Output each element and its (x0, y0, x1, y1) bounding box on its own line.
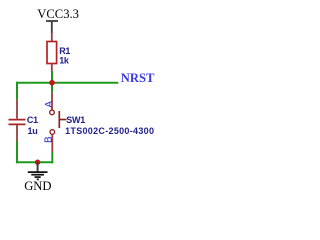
resistor R1 pin 1 (51, 33, 53, 42)
svg-text:NRST: NRST (121, 71, 155, 85)
switch SW1 actuator bar (58, 111, 60, 128)
wire left rail down (16, 82, 18, 100)
switch SW1 pin A (51, 93, 53, 110)
switch SW1 terminal A circle (50, 110, 55, 115)
wire SW1 to bottom (51, 152, 53, 163)
svg-text:R1: R1 (59, 46, 70, 56)
wire bottom horizontal (16, 161, 53, 163)
junction node (49, 80, 55, 86)
svg-text:GND: GND (24, 179, 51, 193)
ground symbol (28, 172, 48, 179)
switch SW1 pin B wire (51, 134, 53, 152)
capacitor C1 plates (9, 120, 26, 125)
ground stem (37, 162, 39, 171)
svg-text:VCC3.3: VCC3.3 (37, 7, 79, 21)
wire from R1 to node (51, 71, 53, 83)
switch SW1 actuator stem (59, 119, 66, 121)
resistor R1 pin 2 (51, 64, 53, 72)
svg-text:1k: 1k (59, 56, 70, 66)
svg-text:C1: C1 (27, 115, 38, 125)
resistor R1 body (47, 42, 57, 64)
svg-text:1TS002C-2500-4300: 1TS002C-2500-4300 (65, 126, 154, 136)
wire node down to SW1 (51, 83, 53, 93)
wire horizontal NRST net (16, 82, 118, 84)
svg-text:SW1: SW1 (66, 115, 85, 125)
switch SW1 terminal B circle (50, 130, 55, 135)
power flag VCC3.3 symbol (46, 21, 58, 33)
svg-text:A: A (44, 101, 55, 108)
capacitor C1 pin 2 (16, 125, 18, 141)
wire cap to bottom (16, 141, 18, 163)
junction node GND (35, 160, 40, 165)
capacitor C1 pin 1 (16, 99, 18, 118)
svg-text:1u: 1u (28, 126, 38, 136)
